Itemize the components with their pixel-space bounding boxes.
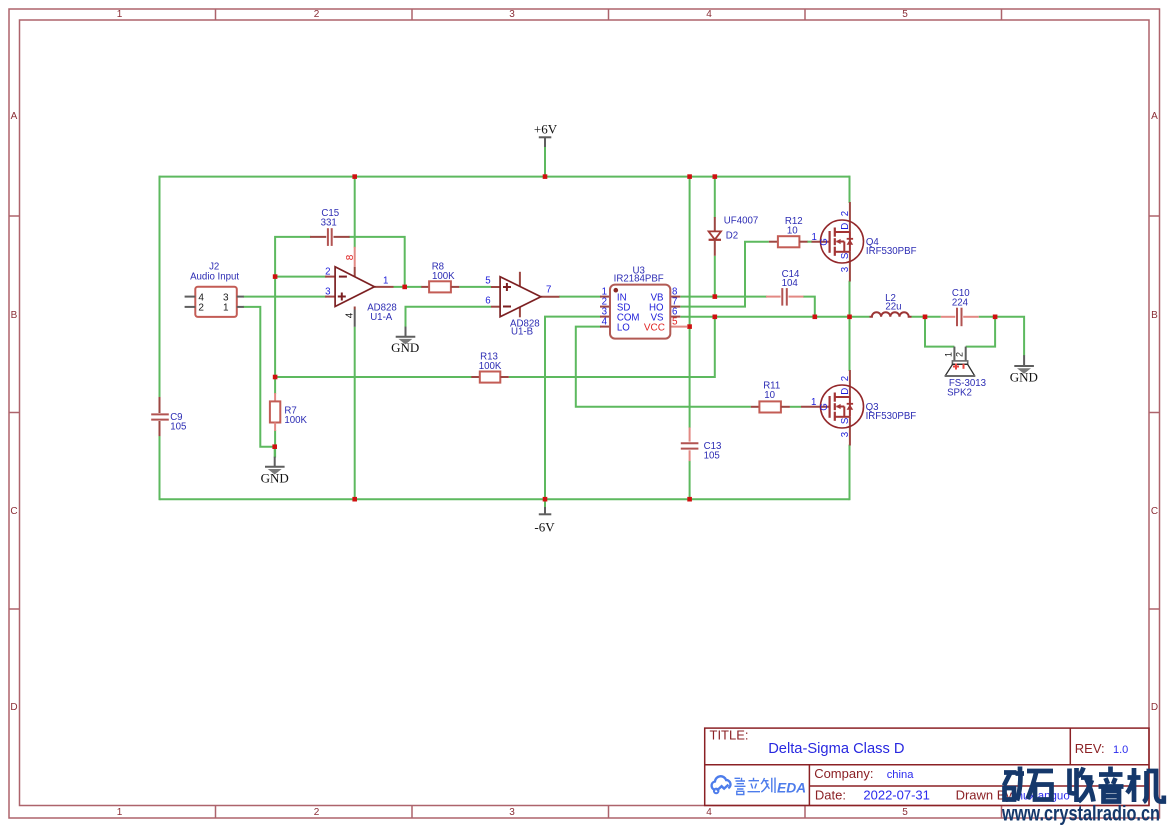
svg-text:+6V: +6V — [534, 122, 558, 137]
junction U1A pin2 node — [273, 274, 278, 279]
junction VS C14 — [813, 315, 818, 320]
wire +6V top rail — [160, 176, 850, 178]
svg-text:2: 2 — [840, 211, 851, 216]
svg-text:1: 1 — [223, 303, 229, 314]
junction L2 output node — [923, 315, 928, 320]
resistor R12 — [769, 216, 808, 247]
junction R7 gnd node — [272, 444, 277, 449]
resistor R8 — [421, 262, 459, 293]
svg-text:4: 4 — [602, 317, 608, 328]
svg-text:GND: GND — [1010, 370, 1038, 385]
svg-text:IR2184PBF: IR2184PBF — [614, 274, 664, 285]
wire R8 to U1B pin5 — [459, 286, 491, 288]
wire R13 feedback line right to VS — [509, 317, 715, 377]
svg-text:C: C — [1151, 506, 1158, 517]
svg-text:5: 5 — [672, 317, 678, 328]
svg-text:U1-B: U1-B — [511, 327, 533, 338]
power flag +6V — [534, 122, 558, 147]
wire U3 LO to R11 — [576, 327, 751, 407]
IC U3 IR2184PBF — [600, 266, 687, 339]
wire R12 to Q4 gate — [807, 241, 812, 243]
svg-text:6: 6 — [485, 295, 490, 306]
junction VS switch node — [847, 315, 852, 320]
wire D2 bottom to VB junction — [714, 256, 716, 298]
junction input/R13 node — [273, 375, 278, 380]
svg-text:100K: 100K — [479, 361, 502, 372]
svg-text:4: 4 — [706, 9, 712, 20]
svg-text:UF4007: UF4007 — [724, 216, 758, 227]
svg-text:3: 3 — [325, 286, 330, 297]
wire U3 COM down to bottom rail — [545, 317, 601, 500]
svg-text:IRF530PBF: IRF530PBF — [866, 411, 917, 422]
connector J2 — [185, 262, 244, 317]
junction top rail D2 — [713, 174, 718, 179]
svg-text:2: 2 — [325, 266, 330, 277]
watermark CrystalRadio CJK — [1004, 767, 1164, 803]
svg-text:1: 1 — [117, 9, 123, 20]
svg-text:1: 1 — [117, 807, 123, 818]
wire C15 right branch — [349, 237, 405, 288]
wire +6V stub — [544, 147, 546, 178]
wire input node vertical — [274, 276, 276, 394]
frame row ticks left — [9, 216, 20, 609]
svg-text:100K: 100K — [284, 415, 307, 426]
svg-text:D: D — [10, 702, 17, 713]
svg-text:100K: 100K — [432, 271, 455, 282]
wire C15 left branch — [275, 237, 311, 278]
wire Q4 source to VS node — [849, 281, 851, 317]
wire R7 bottom to gnd junction — [274, 430, 276, 458]
wire VS node to Q3 drain — [849, 317, 851, 371]
svg-text:3: 3 — [509, 807, 515, 818]
junction VB D2 — [713, 294, 718, 299]
svg-text:D2: D2 — [726, 231, 738, 242]
svg-text:VCC: VCC — [644, 322, 665, 333]
ground GND2 (U1-B inverting input) — [391, 327, 419, 356]
wire VCC vertical from top rail to C13 — [689, 176, 691, 428]
svg-text:A: A — [11, 111, 18, 122]
wire left vertical upper (top rail to C9) — [159, 176, 161, 398]
ground GND1 (input bias) — [261, 457, 289, 486]
wire C13 bottom to rail — [689, 461, 691, 500]
frame column ticks top — [216, 9, 1002, 20]
wire U1B pin6 to gnd — [406, 307, 492, 327]
wire R11 to Q3 gate — [790, 406, 801, 408]
svg-text:-6V: -6V — [534, 520, 555, 535]
svg-text:D: D — [840, 388, 851, 395]
svg-text:D: D — [1151, 702, 1158, 713]
svg-text:S: S — [840, 252, 851, 259]
junction top rail VCC — [687, 174, 692, 179]
title block TITLE text — [710, 728, 905, 757]
diode D2 UF4007 — [709, 216, 759, 256]
op-amp U1-B — [485, 272, 559, 338]
wire -6V stub — [544, 499, 546, 507]
svg-text:TITLE:: TITLE: — [710, 728, 749, 743]
resistor R7 — [270, 393, 308, 431]
frame column labels top — [117, 9, 909, 20]
wire U1A pin8 supply — [354, 176, 356, 248]
wire L2 to C10 — [912, 316, 941, 318]
wire VS line — [680, 316, 869, 318]
junction bottom rail pin4 — [352, 497, 357, 502]
wire U1A pin2 — [275, 276, 326, 278]
svg-text:EDA: EDA — [777, 781, 806, 796]
junction top rail / pin8 — [352, 174, 357, 179]
wire J2 pin3 to U1A pin3 — [243, 296, 326, 298]
svg-text:5: 5 — [902, 807, 908, 818]
inductor L2 — [870, 293, 912, 317]
svg-text:1: 1 — [944, 352, 954, 357]
svg-text:2: 2 — [314, 807, 320, 818]
op-amp U1-A — [325, 247, 397, 327]
svg-text:104: 104 — [782, 278, 799, 289]
wire C10 to output gnd branch — [979, 317, 1024, 356]
svg-text:10: 10 — [787, 226, 798, 237]
wire D2 top — [714, 176, 716, 218]
wire U3 HO to R12 — [680, 242, 769, 307]
wire speaker left leg — [925, 317, 954, 347]
svg-text:2: 2 — [314, 9, 320, 20]
transistor Q3 IRF530PBF — [801, 370, 916, 446]
svg-text:1: 1 — [383, 276, 388, 287]
svg-text:2: 2 — [840, 376, 851, 381]
frame row labels left — [10, 111, 17, 713]
svg-text:10: 10 — [764, 390, 775, 401]
svg-text:2: 2 — [955, 352, 965, 357]
wire U1A output to R8 — [394, 286, 422, 288]
wire R13 feedback line left — [275, 376, 472, 378]
wire speaker right leg — [966, 317, 995, 347]
svg-text:7: 7 — [546, 285, 551, 296]
svg-text:3: 3 — [509, 9, 515, 20]
junction U1A output node — [402, 285, 407, 290]
wire VB line U3 pin8 to C14 — [680, 296, 767, 298]
svg-text:D: D — [840, 223, 851, 230]
svg-text:3: 3 — [840, 432, 851, 437]
svg-text:2: 2 — [198, 303, 204, 314]
svg-text:REV:: REV: — [1075, 741, 1105, 756]
svg-text:1: 1 — [811, 397, 816, 408]
title block date row — [815, 788, 1070, 803]
power flag -6V — [534, 507, 555, 535]
wire gnd1 stub — [274, 446, 276, 458]
svg-text:224: 224 — [952, 298, 969, 309]
wire C14 right to VS — [803, 297, 815, 317]
resistor R13 — [471, 352, 509, 383]
speaker SPK2 FS-3013 — [944, 347, 987, 399]
svg-text:GND: GND — [391, 340, 419, 355]
svg-text:1.0: 1.0 — [1113, 744, 1128, 756]
capacitor C13 — [681, 427, 722, 461]
svg-text:www.crystalradio.cn: www.crystalradio.cn — [1001, 803, 1160, 826]
transistor Q4 IRF530PBF — [812, 202, 917, 282]
frame row ticks right — [1149, 216, 1160, 609]
frame column ticks bottom — [216, 806, 1002, 819]
frame row labels right — [1151, 111, 1158, 713]
junction C10 gnd node — [993, 315, 998, 320]
svg-text:B: B — [1151, 310, 1158, 321]
wire J2 pin1 loop — [243, 307, 275, 447]
svg-text:331: 331 — [321, 218, 337, 229]
capacitor C10 — [941, 288, 979, 326]
svg-text:Delta-Sigma Class D: Delta-Sigma Class D — [768, 741, 904, 757]
wire -6V bottom rail — [160, 498, 850, 500]
svg-text:A: A — [1151, 111, 1158, 122]
capacitor C14 — [766, 269, 804, 306]
svg-text:Date:: Date: — [815, 788, 846, 803]
title block REV — [1075, 741, 1128, 756]
svg-text:U1-A: U1-A — [370, 312, 393, 323]
JLC EDA logo — [712, 776, 807, 795]
svg-text:2022-07-31: 2022-07-31 — [863, 788, 930, 803]
wire U1B out to U3 IN — [559, 296, 601, 298]
junction bottom rail C13 — [687, 497, 692, 502]
svg-text:8: 8 — [345, 254, 356, 260]
wire U1A pin4 down to bottom rail — [354, 327, 356, 500]
svg-text:4: 4 — [345, 312, 356, 318]
frame column labels bottom — [117, 807, 909, 818]
junction bottom rail -6V — [543, 497, 548, 502]
svg-text:C: C — [10, 506, 17, 517]
svg-text:Company:: Company: — [814, 766, 873, 781]
junction VCC pin5 — [687, 324, 692, 329]
svg-text:S: S — [840, 417, 851, 424]
svg-text:G: G — [819, 403, 830, 411]
wire left vertical lower (C9 to bottom rail) — [159, 436, 161, 501]
svg-text:GND: GND — [261, 470, 289, 485]
wire Q3 source to bottom rail — [849, 445, 851, 501]
svg-text:1: 1 — [812, 232, 817, 243]
svg-text:G: G — [819, 238, 830, 246]
svg-text:LO: LO — [617, 322, 630, 333]
svg-text:china: china — [887, 769, 915, 781]
ground GND3 (output) — [1010, 355, 1038, 384]
capacitor C9 — [151, 397, 186, 436]
svg-text:SPK2: SPK2 — [947, 388, 972, 399]
svg-text:105: 105 — [170, 421, 186, 432]
svg-text:22u: 22u — [885, 302, 901, 313]
capacitor C15 — [310, 208, 350, 246]
junction VS R13 — [713, 315, 718, 320]
title block frame — [705, 728, 1149, 805]
wire right vertical to Q4 drain — [849, 176, 851, 203]
svg-text:105: 105 — [704, 451, 720, 462]
svg-text:5: 5 — [902, 9, 908, 20]
svg-text:Audio Input: Audio Input — [190, 272, 239, 283]
svg-text:4: 4 — [706, 807, 712, 818]
svg-text:IRF530PBF: IRF530PBF — [866, 246, 917, 257]
junction top rail +6V — [543, 174, 548, 179]
svg-text:B: B — [11, 310, 18, 321]
resistor R11 — [751, 381, 790, 413]
title block company row — [814, 766, 914, 781]
svg-text:5: 5 — [485, 275, 490, 286]
svg-text:3: 3 — [840, 267, 851, 272]
